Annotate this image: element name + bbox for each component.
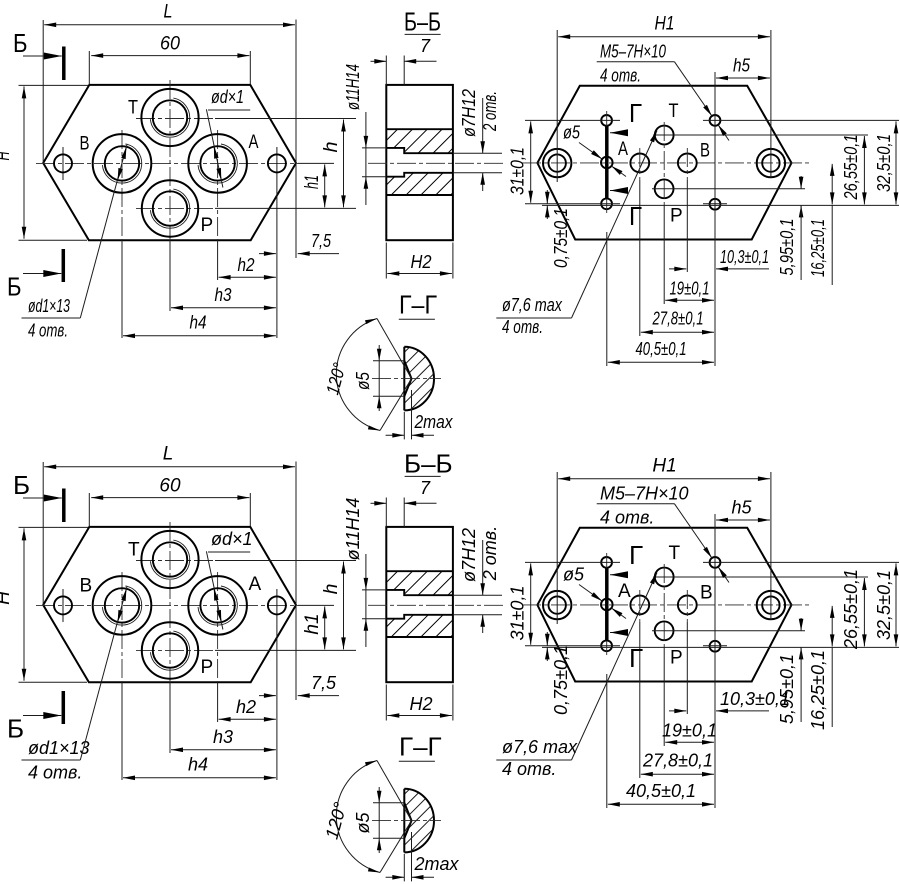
svg-text:26,55±0,1: 26,55±0,1	[841, 135, 861, 201]
svg-text:ød1×13: ød1×13	[28, 738, 90, 758]
svg-text:h5: h5	[731, 498, 752, 518]
label od x1 with leader through port A	[206, 87, 250, 188]
dimension h5	[716, 498, 770, 521]
dimension o5 (G-G)	[353, 345, 404, 411]
dimension o7H12 2 holes	[453, 526, 502, 633]
svg-text:10,3±0,1: 10,3±0,1	[720, 689, 790, 709]
P port centerline extended right (for dim h1)	[136, 649, 215, 651]
dimension o11H14	[343, 498, 386, 647]
port A	[188, 576, 247, 635]
120 degree arc	[322, 761, 380, 873]
left mounting hole (counterbored)	[543, 591, 571, 619]
dimension 0,75	[547, 632, 571, 715]
counterbore outline	[386, 148, 453, 177]
svg-text:Б–Б: Б–Б	[404, 7, 441, 37]
port T	[141, 89, 198, 146]
A port vertical centerline extended to h2	[217, 572, 219, 682]
dimension h3	[171, 285, 276, 308]
T P column centerline / extension to 19	[663, 122, 665, 205]
svg-text:Г: Г	[629, 98, 642, 128]
svg-text:Б: Б	[7, 272, 22, 302]
svg-text:B: B	[700, 141, 710, 162]
hatch upper	[386, 571, 453, 595]
main horizontal centerline	[36, 162, 298, 164]
dimension h	[321, 120, 344, 208]
B port vertical centerline extended to h4	[121, 572, 123, 682]
dimension 5,95	[777, 618, 801, 724]
dimension h4	[123, 755, 276, 778]
left holes column extension to 40,5	[606, 232, 608, 366]
countersink edge extension upper	[377, 319, 412, 379]
svg-text:27,8±0,1: 27,8±0,1	[652, 309, 704, 329]
right mounting hole vertical centerline / H1 h5 extension	[770, 472, 772, 620]
port P	[142, 622, 198, 678]
section mark B bottom	[7, 691, 63, 744]
dimension H2	[386, 685, 453, 721]
dimension H	[0, 85, 88, 240]
section centerline	[368, 162, 505, 164]
right mounting hole	[268, 154, 286, 172]
svg-text:Б: Б	[13, 470, 30, 500]
dimension 27,8	[641, 309, 714, 333]
hatch zone top boundary	[386, 570, 453, 572]
left holes column extension to 40,5	[606, 674, 608, 808]
half-round outline	[404, 789, 434, 853]
svg-text:ø5: ø5	[563, 123, 581, 143]
label od1 x13 4 holes with leader through port B	[22, 145, 127, 341]
svg-text:Г–Г: Г–Г	[399, 290, 437, 320]
svg-text:31±0,1: 31±0,1	[508, 586, 528, 641]
left mounting hole vertical centerline	[62, 589, 64, 622]
svg-text:ød×1: ød×1	[211, 529, 253, 549]
svg-text:16,25±0,1: 16,25±0,1	[808, 219, 828, 277]
left mounting hole	[54, 596, 72, 614]
dimension 40,5	[608, 339, 714, 362]
half-round outline	[404, 347, 434, 411]
left holes column centerline	[606, 553, 608, 655]
right mounting hole (counterbored)	[757, 149, 785, 177]
right mounting hole (counterbored)	[757, 591, 785, 619]
svg-text:2max: 2max	[414, 854, 460, 874]
T port centerline extended right (for dim h)	[136, 118, 215, 120]
port B	[93, 576, 152, 635]
M5 hole bottom left	[601, 640, 612, 651]
M5 hole top left	[601, 557, 612, 568]
dimension 32,5	[874, 121, 896, 204]
title B-B	[404, 449, 453, 479]
svg-text:Б–Б: Б–Б	[404, 449, 453, 479]
svg-text:40,5±0,1: 40,5±0,1	[636, 339, 687, 359]
hatch zone bottom boundary	[386, 194, 453, 196]
dimension 60	[89, 476, 250, 527]
B column centerline / extension to 10,3	[686, 148, 688, 180]
dimension 0,75	[547, 190, 571, 268]
svg-text:h3: h3	[215, 285, 232, 305]
section body outline	[386, 85, 453, 240]
countersink edge extension lower	[380, 821, 412, 873]
svg-text:0,75±0,1: 0,75±0,1	[551, 208, 571, 268]
svg-text:7,5: 7,5	[311, 231, 332, 251]
svg-text:B: B	[80, 134, 90, 155]
svg-text:Г: Г	[629, 540, 643, 570]
svg-text:T: T	[128, 98, 138, 119]
svg-text:P: P	[670, 648, 683, 669]
svg-text:H2: H2	[409, 694, 432, 714]
section cut line G-G (thick)	[605, 568, 609, 641]
top holes row line	[525, 119, 899, 121]
vertical centerline through T and P	[169, 80, 171, 240]
port A	[188, 134, 247, 193]
dimension h5	[716, 56, 770, 79]
svg-text:16,25±0,1: 16,25±0,1	[808, 650, 828, 730]
dimension 7 (counterbore depth)	[371, 478, 437, 527]
svg-text:7: 7	[420, 478, 431, 498]
svg-text:ø11H14: ø11H14	[343, 498, 363, 561]
dimension 16,25	[808, 164, 832, 285]
section arrow G top	[610, 132, 628, 134]
svg-text:19±0,1: 19±0,1	[662, 721, 717, 741]
hatch upper	[386, 129, 453, 153]
svg-text:h3: h3	[213, 727, 233, 747]
svg-text:H: H	[0, 151, 14, 160]
svg-text:5,95±0,1: 5,95±0,1	[777, 219, 797, 276]
section arrow G bottom	[610, 632, 628, 634]
pin hole o5	[601, 599, 613, 611]
label o7,6 max 4 holes with leader to port T	[496, 131, 657, 338]
pin hole o5	[601, 157, 613, 169]
baseline row (0,75 below bottom holes)	[542, 646, 899, 648]
port P	[142, 180, 198, 236]
section mark B bottom	[7, 249, 63, 302]
countersink V notch	[404, 361, 411, 397]
svg-text:4 отв.: 4 отв.	[502, 759, 556, 779]
flat face line	[403, 347, 405, 411]
svg-text:ø7H12: ø7H12	[459, 89, 479, 137]
left mounting hole vertical centerline	[62, 147, 64, 180]
M5 hole top right	[710, 115, 721, 126]
svg-text:h4: h4	[190, 313, 207, 333]
svg-text:h5: h5	[733, 56, 751, 76]
T port centerline extended right (for dim h)	[136, 560, 215, 562]
A port vertical centerline extended to h2	[217, 130, 219, 240]
dimension o5 (G-G)	[353, 787, 404, 853]
dimension L	[43, 2, 296, 259]
svg-text:A: A	[249, 132, 259, 153]
dimension 7,5	[259, 673, 339, 696]
svg-text:ø5: ø5	[353, 812, 373, 834]
svg-text:4 отв.: 4 отв.	[600, 508, 654, 528]
plate outline hexagon	[43, 85, 296, 240]
dimension h4	[123, 313, 276, 336]
dimension 31	[508, 563, 531, 644]
svg-text:Б: Б	[13, 28, 28, 58]
port hole B (o7,6)	[678, 596, 697, 615]
svg-text:19±0,1: 19±0,1	[670, 279, 710, 299]
right mounting hole vertical centerline / H1 h5 extension	[770, 30, 772, 178]
dimension 2max	[386, 390, 454, 439]
svg-text:32,5±0,1: 32,5±0,1	[874, 134, 894, 192]
svg-text:H2: H2	[411, 252, 432, 272]
svg-text:B: B	[700, 583, 713, 604]
title G-G	[399, 290, 437, 320]
section arrow G top	[610, 574, 628, 576]
hatch of half-round boss	[404, 789, 434, 853]
svg-text:H: H	[0, 591, 14, 605]
section mark B top	[13, 28, 64, 80]
dimension H	[0, 527, 88, 682]
dimension 16,25	[808, 606, 832, 730]
dimension 32,5	[874, 563, 896, 646]
left mounting hole vertical centerline / H1 extension	[556, 472, 558, 624]
port B	[93, 134, 152, 193]
top holes row line	[525, 561, 899, 563]
port hole P (o7,6)	[655, 179, 674, 198]
svg-text:ø7H12: ø7H12	[459, 528, 479, 582]
port T	[141, 531, 198, 588]
label M5-7Hx10 4 holes with leader	[597, 42, 729, 141]
dimension h2	[219, 255, 276, 277]
svg-text:A: A	[618, 139, 628, 160]
section body outline	[386, 527, 453, 682]
svg-text:ø7,6 max: ø7,6 max	[502, 295, 563, 315]
svg-text:4 отв.: 4 отв.	[600, 66, 641, 86]
A column centerline / extension to 27,8	[639, 148, 641, 180]
main horizontal centerline	[522, 604, 812, 606]
right holes column extension	[714, 514, 716, 808]
left holes column centerline	[606, 111, 608, 213]
svg-text:26,55±0,1: 26,55±0,1	[841, 569, 861, 650]
dimension 60	[89, 34, 250, 85]
label o7,6 max 4 holes with leader to port T	[496, 573, 657, 780]
B port vertical centerline extended to h4	[121, 130, 123, 240]
svg-text:H1: H1	[652, 456, 676, 477]
label o5 with leader to pin hole	[563, 565, 626, 619]
right holes column extension	[714, 72, 716, 366]
svg-text:Г: Г	[629, 643, 643, 673]
dimension o7H12 2 holes	[453, 89, 502, 191]
left mounting hole (counterbored)	[543, 149, 571, 177]
dimension 5,95	[777, 176, 801, 280]
dimension 19	[665, 279, 714, 301]
svg-text:L: L	[163, 444, 174, 465]
label M5-7Hx10 4 holes with leader	[597, 484, 729, 583]
section centerline	[368, 604, 505, 606]
svg-text:32,5±0,1: 32,5±0,1	[874, 570, 894, 640]
svg-text:P: P	[201, 657, 214, 678]
P row extension line	[652, 630, 805, 632]
hatch zone top boundary	[386, 128, 453, 130]
port hole P (o7,6)	[655, 621, 674, 640]
dimension h1	[302, 164, 325, 207]
svg-text:B: B	[80, 576, 93, 597]
M5 hole bottom left	[601, 198, 612, 209]
svg-text:ø11H14: ø11H14	[343, 64, 363, 110]
svg-text:h: h	[321, 584, 342, 595]
left mounting hole	[54, 154, 72, 172]
A column centerline / extension to 27,8	[639, 590, 641, 622]
hatch zone bottom boundary	[386, 636, 453, 638]
svg-text:A: A	[249, 574, 262, 595]
port hole B (o7,6)	[678, 154, 697, 173]
svg-text:4 отв.: 4 отв.	[28, 763, 82, 783]
svg-text:ø5: ø5	[563, 565, 585, 585]
counterbore outline	[386, 590, 453, 619]
svg-text:A: A	[618, 581, 631, 602]
svg-text:T: T	[669, 543, 681, 564]
svg-text:10,3±0,1: 10,3±0,1	[720, 247, 769, 267]
dimension h3	[171, 727, 276, 750]
dimension H1	[558, 456, 770, 479]
section mark B top	[13, 470, 64, 522]
label od1 x13 4 holes with leader through port B	[22, 587, 127, 783]
main horizontal centerline	[522, 162, 812, 164]
plate outline hexagon (rear)	[537, 86, 791, 240]
section arrow G bottom	[610, 190, 628, 192]
dimension h1	[302, 606, 325, 649]
svg-text:ød×1: ød×1	[211, 87, 244, 107]
port hole T (o7,6)	[655, 126, 674, 145]
svg-text:Г: Г	[629, 201, 642, 231]
port hole T (o7,6)	[655, 568, 674, 587]
dimension 26,55	[841, 569, 864, 650]
bottom holes row line	[525, 203, 727, 205]
svg-text:ø7,6 max: ø7,6 max	[502, 737, 578, 757]
dimension 40,5	[608, 781, 714, 804]
dimension 19	[662, 721, 717, 743]
T P column centerline / extension to 19	[663, 564, 665, 647]
dimension 7,5	[259, 231, 339, 254]
countersink V notch	[404, 803, 411, 839]
dimension 2max	[386, 832, 460, 881]
port hole A (o7,6)	[630, 154, 649, 173]
dimension h	[321, 562, 344, 650]
svg-text:2max: 2max	[414, 412, 454, 432]
svg-text:40,5±0,1: 40,5±0,1	[626, 781, 696, 801]
M5 hole top right	[710, 557, 721, 568]
dimension h2	[219, 697, 276, 719]
title G-G	[399, 732, 442, 762]
hatch of half-round boss	[404, 347, 434, 411]
dimension 10,3	[669, 247, 769, 269]
svg-text:T: T	[128, 540, 140, 561]
left mounting hole vertical centerline / H1 extension	[556, 30, 558, 182]
M5 hole top left	[601, 115, 612, 126]
svg-text:H1: H1	[655, 14, 675, 35]
title B-B	[404, 7, 441, 37]
svg-text:h1: h1	[302, 175, 323, 189]
section cut line G-G (thick)	[605, 126, 609, 199]
hatch lower	[386, 173, 453, 195]
bottom holes row line	[525, 645, 727, 647]
section centerline	[372, 820, 441, 822]
svg-text:7,5: 7,5	[311, 673, 337, 693]
right mounting hole vertical centerline extended to h4	[276, 589, 278, 780]
svg-text:h1: h1	[302, 613, 323, 634]
T row extension line	[653, 134, 868, 136]
section centerline	[372, 378, 441, 380]
svg-text:ø5: ø5	[353, 371, 373, 390]
main horizontal centerline	[36, 604, 298, 606]
countersink edge extension upper	[377, 761, 412, 821]
svg-text:60: 60	[160, 34, 180, 55]
svg-text:60: 60	[159, 476, 181, 497]
dimension L	[43, 444, 296, 701]
120 degree arc	[322, 319, 380, 431]
label o5 with leader to pin hole	[563, 123, 626, 177]
svg-text:Б: Б	[7, 714, 24, 744]
svg-text:7: 7	[420, 36, 431, 56]
B column centerline / extension to 10,3	[686, 590, 688, 622]
M5 hole bottom right	[710, 199, 721, 210]
baseline row (0,75 below bottom holes)	[542, 204, 899, 206]
countersink edge extension lower	[380, 379, 412, 431]
dimension 7 (counterbore depth)	[371, 36, 437, 85]
dimension H1	[558, 14, 770, 37]
svg-text:h2: h2	[238, 255, 255, 275]
T row extension line	[653, 576, 868, 578]
svg-text:M5–7H×10: M5–7H×10	[600, 484, 689, 504]
plate outline hexagon	[43, 527, 296, 682]
svg-text:M5–7H×10: M5–7H×10	[600, 42, 666, 62]
dimension 10,3	[669, 689, 790, 711]
dimension 27,8	[641, 751, 714, 775]
svg-text:h4: h4	[188, 755, 208, 775]
plate outline hexagon (rear)	[537, 528, 791, 682]
svg-text:4 отв.: 4 отв.	[28, 321, 68, 341]
flat face line	[403, 789, 405, 853]
svg-text:31±0,1: 31±0,1	[508, 147, 528, 195]
dimension o11H14	[343, 64, 386, 205]
svg-text:h: h	[321, 142, 342, 153]
port hole A (o7,6)	[630, 596, 649, 615]
right mounting hole	[268, 596, 286, 614]
vertical centerline through T and P	[169, 522, 171, 682]
hatch lower	[386, 615, 453, 637]
label od x1 with leader through port A	[206, 529, 252, 630]
svg-text:ød1×13: ød1×13	[28, 296, 70, 316]
svg-text:L: L	[164, 2, 173, 23]
dimension 26,55	[841, 135, 864, 205]
svg-text:0,75±0,1: 0,75±0,1	[551, 645, 571, 715]
svg-text:Г–Г: Г–Г	[399, 732, 442, 762]
M5 hole bottom right	[710, 641, 721, 652]
P port centerline extended right (for dim h1)	[136, 207, 215, 209]
dimension 31	[508, 121, 531, 202]
svg-text:27,8±0,1: 27,8±0,1	[642, 751, 713, 771]
svg-text:4 отв.: 4 отв.	[502, 317, 543, 337]
right mounting hole vertical centerline extended to h4	[276, 147, 278, 338]
svg-text:h2: h2	[236, 697, 256, 717]
svg-text:P: P	[670, 206, 683, 227]
svg-text:T: T	[669, 101, 679, 122]
svg-text:P: P	[201, 215, 214, 236]
P row extension line	[652, 188, 805, 190]
dimension H2	[386, 243, 453, 279]
